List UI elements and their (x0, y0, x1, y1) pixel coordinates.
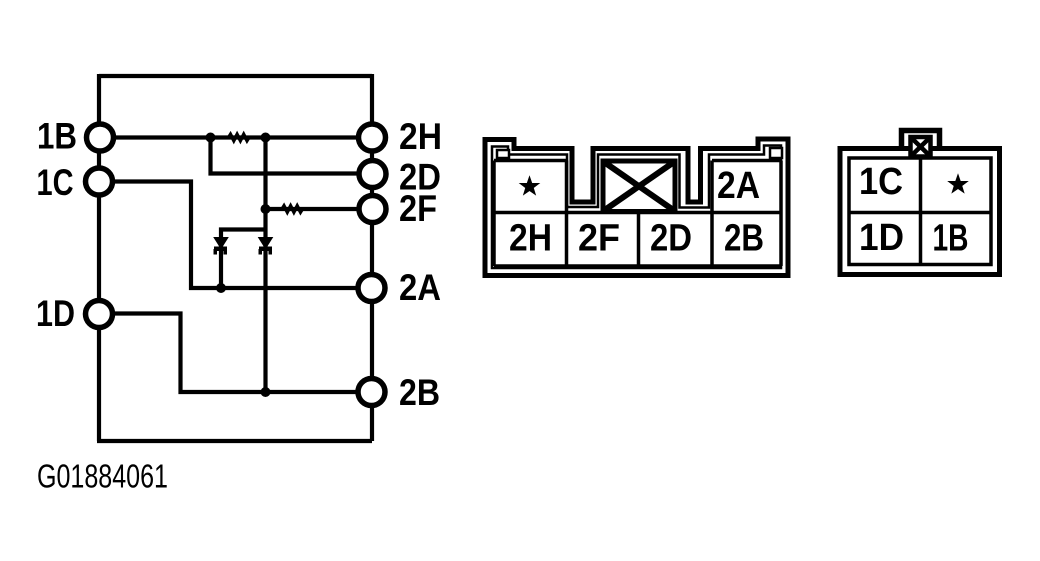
terminal circle 2B (358, 379, 385, 406)
svg-text:2H: 2H (509, 218, 552, 260)
connector C1 cell grid (849, 158, 991, 265)
wire diode branch top (221, 230, 266, 289)
terminal circle 1C (86, 168, 113, 195)
terminal circle 2A (358, 275, 385, 302)
wire bus to 2F (266, 207, 373, 211)
wire bottom outer (97, 439, 372, 443)
resistor on 2F wire (282, 206, 302, 212)
terminal circle 2D (359, 161, 386, 188)
connector C2 left tab square (497, 150, 509, 158)
terminal circle 1B (87, 124, 114, 151)
junction dot diode to 2A wire (216, 283, 226, 293)
terminal circle 2H (359, 124, 386, 151)
diode D2 (259, 238, 273, 255)
wire 1D to 2B (99, 314, 372, 393)
svg-text:1D: 1D (36, 293, 75, 334)
connector C1 outer shell (840, 149, 1000, 275)
connector C2 right tab square (770, 148, 782, 158)
wire top outer (99, 74, 372, 78)
svg-text:1D: 1D (859, 217, 904, 259)
svg-text:2B: 2B (399, 372, 440, 413)
svg-text:2H: 2H (399, 116, 442, 157)
svg-text:1B: 1B (37, 116, 77, 157)
svg-text:2A: 2A (717, 165, 760, 207)
connector C1 tab (902, 131, 940, 150)
junction dot on 1B wire right (261, 133, 271, 143)
resistor on 1B-2H wire (229, 134, 250, 140)
wire left vertical (97, 74, 101, 441)
junction dot on 1B wire left (206, 133, 216, 143)
svg-text:1C: 1C (859, 161, 903, 203)
terminal circle 2F (359, 196, 386, 223)
wire 1C to 2A (99, 182, 372, 289)
svg-text:2D: 2D (650, 218, 692, 260)
terminal circle 1D (86, 301, 113, 328)
connector C2 inner shell line (492, 146, 781, 269)
junction dot bus to 2F (261, 204, 271, 214)
diode D1 (214, 238, 228, 255)
wire right vertical (370, 74, 374, 441)
svg-text:2F: 2F (578, 218, 620, 260)
connector C2 keyway cell X (603, 161, 675, 212)
connector C2 cell grid (494, 161, 781, 267)
svg-text:2B: 2B (724, 218, 764, 260)
svg-text:2A: 2A (399, 267, 441, 308)
svg-text:G01884061: G01884061 (37, 458, 168, 495)
wire junction 1B line to 2D (211, 138, 373, 174)
svg-text:1C: 1C (37, 162, 74, 203)
connector C1 keyway box X (911, 137, 931, 157)
connector C2 outer shell (485, 139, 788, 276)
connector C1 cell star (949, 176, 966, 192)
wire main vertical bus (263, 138, 267, 393)
junction dot bus to 2B wire (261, 387, 271, 397)
star symbol C2 (521, 178, 538, 194)
svg-text:1B: 1B (933, 218, 969, 260)
wire 1B to 2H (99, 135, 372, 139)
svg-text:2F: 2F (399, 188, 437, 229)
